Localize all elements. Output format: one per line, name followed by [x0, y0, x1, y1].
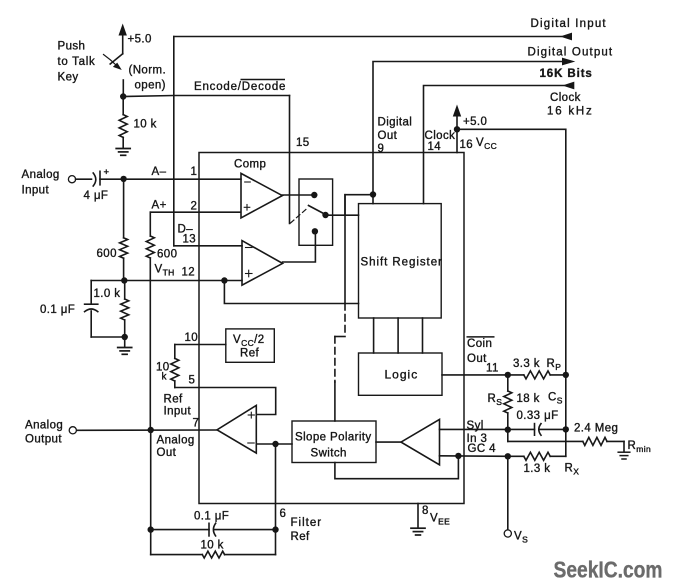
svg-text:16: 16 — [460, 139, 474, 151]
wire pin 10 line — [175, 344, 226, 346]
svg-text:10 k: 10 k — [134, 119, 157, 131]
terminal Analog Output — [69, 427, 76, 434]
wire digital-input vertical (push-to-talk to top rail, down to D- pin 13) — [173, 37, 175, 246]
svg-text:VTH: VTH — [155, 264, 175, 278]
svg-text:CS: CS — [548, 392, 563, 406]
svg-text:Out: Out — [157, 447, 177, 459]
svg-text:10 k: 10 k — [201, 540, 224, 552]
svg-text:18 k: 18 k — [517, 393, 540, 405]
resistor R 600 (A- to Vth node) — [123, 179, 125, 238]
ground (below 10k) — [116, 148, 130, 150]
wire analog-out down to filter RC — [150, 430, 152, 555]
svg-text:Digital Input: Digital Input — [531, 18, 607, 30]
svg-text:2: 2 — [191, 201, 198, 213]
svg-text:open): open) — [135, 80, 166, 92]
wire Vth RC bottom — [91, 336, 125, 338]
svg-text:VCC: VCC — [476, 137, 497, 151]
node: switch common — [322, 212, 328, 218]
svg-text:VCC/2: VCC/2 — [233, 334, 265, 348]
op-amp U2 (decode comparator) — [242, 241, 283, 286]
wire right rail down — [565, 375, 567, 456]
svg-text:16 kHz: 16 kHz — [547, 106, 594, 118]
svg-text:Filter: Filter — [291, 517, 323, 529]
capacitor Cs 0.33uF (syllabic) — [508, 428, 535, 430]
wire vertical data line down — [344, 195, 346, 304]
svg-text:+5.0: +5.0 — [463, 116, 487, 128]
wire Vth line to pin 12 — [91, 280, 242, 282]
svg-text:9: 9 — [378, 143, 385, 155]
resistor R 10k pull (push-to-talk) — [122, 97, 124, 115]
svg-text:1: 1 — [191, 166, 198, 178]
block Logic — [359, 353, 443, 395]
arrowhead Digital Input (pointing left) — [560, 33, 572, 41]
terminal Analog Input — [68, 176, 75, 183]
wire pin 5 ref input line — [175, 388, 276, 415]
resistor Rs 18k (syllabic) — [507, 375, 509, 391]
svg-text:Shift Register: Shift Register — [361, 257, 443, 269]
wire slope polarity switch feedback to GC — [335, 456, 459, 479]
wire pin 12 to feedback line — [224, 281, 358, 304]
svg-text:3.3 k: 3.3 k — [513, 358, 540, 370]
svg-text:12: 12 — [182, 267, 196, 279]
svg-text:Logic: Logic — [385, 368, 419, 382]
power +5.0 supply arrow (Vcc) — [456, 116, 458, 129]
svg-text:2.4 Meg: 2.4 Meg — [574, 423, 618, 435]
svg-text:14: 14 — [428, 141, 442, 153]
wire filter ref vertical pin 6 — [275, 444, 277, 555]
wire Digital Output rail — [373, 62, 563, 204]
svg-text:0.1 μF: 0.1 μF — [40, 304, 75, 316]
node: analog out feedback junction — [148, 427, 154, 433]
resistor Rp 3.3k — [508, 374, 524, 376]
node: Vth junction (600/1k/cap) — [121, 277, 127, 283]
node: right rail / Cs junction — [563, 426, 569, 432]
svg-text:VS: VS — [514, 531, 528, 545]
node: filter cap right junction — [272, 526, 278, 532]
arrowhead Digital Output (pointing right) — [562, 58, 575, 66]
svg-text:0.1 μF: 0.1 μF — [194, 511, 229, 523]
svg-text:Out: Out — [378, 130, 398, 142]
node: pin 12 feedback junction — [221, 277, 227, 283]
switch S1 push-to-talk blade — [110, 54, 123, 64]
svg-text:RP: RP — [547, 358, 562, 372]
svg-text:1.0 k: 1.0 k — [94, 288, 121, 300]
svg-text:RX: RX — [565, 463, 580, 477]
node: switch lower contact — [312, 228, 318, 234]
svg-text:13: 13 — [183, 234, 197, 246]
node: A- input junction — [120, 176, 126, 182]
resistor Rx 1.3k — [508, 455, 524, 457]
ground (Rmin) — [623, 441, 625, 451]
svg-text:15: 15 — [296, 137, 310, 149]
svg-text:Output: Output — [25, 434, 62, 446]
arrowhead Clock (pointing left) — [562, 82, 574, 90]
svg-text:4 μF: 4 μF — [84, 190, 109, 202]
svg-text:Clock: Clock — [550, 92, 581, 104]
svg-text:11: 11 — [486, 363, 499, 375]
svg-text:Digital Output: Digital Output — [528, 47, 614, 59]
wire analog out pin 7 — [76, 429, 217, 431]
node: Vcc junction — [454, 126, 460, 132]
wire A- line to pin 1 and comparator — [124, 178, 241, 180]
wire U2 output to switch lower contact — [283, 231, 316, 262]
svg-text:Slope Polarity: Slope Polarity — [295, 432, 372, 444]
svg-text:10: 10 — [185, 332, 199, 344]
svg-text:+5.0: +5.0 — [128, 34, 152, 46]
svg-text:600: 600 — [157, 249, 177, 261]
svg-text:Key: Key — [58, 72, 79, 84]
node: switch/10k/encode-decode junction — [120, 93, 126, 99]
wire shift-register to logic bus 2 — [397, 318, 399, 353]
ground (Vth RC) — [124, 337, 126, 347]
wire syl in pin 3 line — [440, 428, 508, 430]
wire Clock rail — [424, 86, 564, 204]
node: switch upper contact — [311, 192, 317, 198]
svg-text:6: 6 — [280, 508, 287, 520]
wire Digital Input rail — [174, 36, 562, 38]
svg-text:Analog: Analog — [157, 435, 195, 447]
svg-text:RS: RS — [488, 393, 503, 407]
block Shift Register — [359, 204, 442, 318]
wire comp output to switch — [282, 194, 314, 196]
wire switch common to shift register — [326, 214, 359, 216]
wire coin out pin 11 line — [442, 374, 508, 376]
svg-text:Ref: Ref — [291, 531, 311, 543]
resistor R 1.0k (Vth to ground) — [124, 281, 126, 300]
switch S1 actuation arc and arrow — [104, 55, 117, 66]
switch block (encode/decode selector) — [299, 179, 333, 245]
svg-text:SeekIC.com: SeekIC.com — [554, 557, 663, 583]
block Vcc/2 Ref — [226, 329, 274, 362]
svg-text:VEE: VEE — [430, 513, 450, 527]
node: filter cap left junction — [148, 526, 154, 532]
svg-text:7: 7 — [193, 418, 200, 430]
svg-text:Rmin: Rmin — [628, 440, 652, 454]
resistor R 2.4 Meg (Rmin) — [508, 440, 583, 442]
wire shift-register to logic bus 1 — [373, 318, 375, 353]
wire dashed data to slope polarity switch — [344, 304, 346, 337]
node: GC feedback junction — [455, 453, 461, 459]
wire switch common branch up to digital out node — [345, 195, 373, 216]
svg-text:Ref: Ref — [164, 394, 184, 406]
wire Vee pin 8 stub — [417, 504, 419, 528]
switch blade — [309, 206, 326, 215]
wire D- line pin 13 to 2nd comparator — [174, 245, 242, 247]
svg-text:A–: A– — [152, 166, 167, 178]
wire A+ line to pin 2 and comparator — [150, 211, 240, 213]
wire shift-register to logic bus 3 — [422, 318, 424, 353]
switch actuator dashed link — [291, 208, 308, 223]
wire U4 output to slope polarity switch — [376, 441, 401, 443]
node: syl in junction — [505, 427, 511, 433]
svg-text:Push: Push — [58, 41, 86, 53]
resistor R 10k (filter) — [151, 554, 203, 556]
node: filter ref junction — [272, 441, 278, 447]
wire encode/decode vertical to pin 15 — [289, 96, 291, 224]
node: digital out junction — [370, 191, 376, 197]
svg-text:8: 8 — [422, 505, 429, 517]
svg-text:Syl: Syl — [467, 420, 484, 432]
svg-text:Comp: Comp — [234, 159, 266, 171]
capacitor C 4uF (input coupling) — [93, 173, 96, 186]
svg-text:Ref: Ref — [240, 348, 260, 360]
svg-text:to Talk: to Talk — [58, 56, 96, 68]
wire Vcc to pin 16 — [456, 129, 458, 152]
svg-text:600: 600 — [97, 248, 117, 260]
svg-text:k: k — [162, 372, 168, 383]
wire encode/decode horizontal — [123, 96, 289, 97]
svg-text:Input: Input — [22, 185, 50, 197]
svg-text:1.3 k: 1.3 k — [524, 463, 551, 475]
node: coin out junction — [505, 372, 511, 378]
svg-text:Coin: Coin — [467, 338, 492, 350]
wire Vs vertical — [507, 456, 509, 530]
capacitor C 0.1uF (filter) — [151, 529, 209, 531]
svg-text:Out: Out — [467, 353, 487, 365]
svg-text:5: 5 — [189, 375, 196, 387]
ground (Vee) — [411, 527, 425, 529]
svg-text:Encode/Decode: Encode/Decode — [194, 81, 286, 93]
svg-text:A+: A+ — [152, 200, 167, 212]
resistor R 10k (pin10 to pin5) — [174, 345, 176, 359]
node: RC bottom junction — [122, 334, 128, 340]
svg-text:+: + — [104, 167, 110, 178]
op-amp U4 (syllabic amp) — [401, 419, 440, 464]
svg-text:Analog: Analog — [25, 420, 63, 432]
node: right rail / Rp junction — [563, 372, 569, 378]
svg-text:Input: Input — [164, 406, 192, 418]
wire Vcc to right rail — [457, 129, 566, 375]
op-amp U1 comparator (Comp) — [241, 173, 282, 218]
wire analog input to coupling cap — [76, 178, 92, 180]
svg-text:(Norm.: (Norm. — [129, 65, 167, 77]
wire GC pin 4 line — [440, 455, 508, 458]
svg-text:Analog: Analog — [22, 169, 60, 181]
svg-text:Digital: Digital — [378, 117, 413, 129]
wire syl junction drop to Rmin — [507, 430, 509, 442]
switch S1 lower contact stub — [122, 80, 124, 94]
block Slope Polarity Switch — [292, 421, 376, 463]
power +5.0 supply arrow (push-to-talk) — [122, 35, 124, 54]
resistor R 600 (A+ to analog out feedback) — [149, 212, 151, 236]
svg-text:Switch: Switch — [311, 448, 347, 460]
svg-text:GC 4: GC 4 — [468, 443, 497, 455]
capacitor C 0.1uF (Vth bypass) — [90, 281, 92, 305]
terminal Vs — [504, 530, 511, 537]
node: Vs junction — [505, 453, 511, 459]
svg-text:16K Bits: 16K Bits — [540, 68, 593, 80]
svg-text:0.33 μF: 0.33 μF — [517, 410, 559, 422]
op-amp U3 output buffer — [217, 405, 256, 453]
wire U3 inverting input to slope polarity switch — [256, 443, 292, 445]
IC chip outline (16-pin CVSD codec) — [199, 153, 464, 504]
